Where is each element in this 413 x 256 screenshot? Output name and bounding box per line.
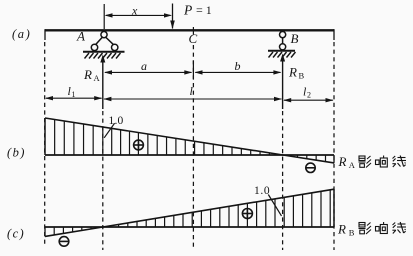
support A ground: [83, 51, 125, 53]
plus sign (c): [242, 209, 252, 219]
dashed line support B: [282, 111, 284, 250]
svg-text:B: B: [299, 71, 305, 81]
RB influence line hatching: [54, 190, 330, 235]
dashed line left end: [44, 42, 46, 246]
reaction arrow RB: [282, 60, 284, 109]
RA influence line hatching: [55, 120, 326, 162]
tick above support A: [103, 4, 105, 29]
dimension b: [195, 71, 280, 73]
svg-text:A: A: [94, 73, 101, 83]
RB influence baseline: [45, 226, 334, 228]
svg-text:= 1: = 1: [196, 3, 212, 17]
svg-text:(b): (b): [7, 146, 26, 160]
support B ground: [268, 50, 295, 52]
svg-text:B: B: [349, 228, 355, 238]
dimension l: [104, 98, 281, 100]
beam right end stub: [333, 29, 335, 40]
reaction arrow RA: [102, 61, 104, 109]
svg-text:1.0: 1.0: [109, 115, 124, 127]
svg-text:1: 1: [72, 90, 76, 99]
RA influence right edge: [333, 155, 335, 163]
beam left end stub: [44, 29, 46, 40]
svg-text:R: R: [83, 67, 92, 82]
leader (b): [104, 123, 114, 138]
RB influence right edge: [333, 189, 335, 227]
svg-text:A: A: [349, 160, 356, 170]
dimension a: [105, 71, 192, 73]
svg-text:(a): (a): [12, 27, 31, 41]
svg-text:x: x: [131, 4, 138, 18]
dashed line support A: [102, 111, 104, 250]
beam: [45, 29, 334, 31]
RA influence baseline: [45, 154, 334, 156]
support A (pin): [91, 31, 118, 50]
RA influence sloped line: [45, 118, 334, 163]
leader (c): [268, 195, 281, 216]
svg-text:R: R: [337, 222, 346, 237]
svg-text:2: 2: [307, 91, 311, 100]
dimension x: [106, 14, 171, 16]
svg-text:B: B: [291, 31, 299, 46]
RA influence left edge: [44, 118, 46, 155]
svg-text:R: R: [338, 154, 347, 169]
tick at C for a/b dims: [192, 61, 194, 80]
RB influence left edge: [44, 227, 46, 236]
minus sign (b): [306, 163, 315, 172]
support B (roller): [280, 31, 286, 49]
svg-text:R: R: [288, 65, 297, 80]
svg-text:A: A: [76, 29, 85, 44]
svg-text:(c): (c): [7, 227, 25, 241]
dashed line right end: [333, 42, 335, 250]
dimension l1: [46, 97, 102, 99]
load P arrow: [172, 4, 174, 29]
RB influence sloped line: [45, 189, 334, 236]
dashed line node C: [192, 45, 194, 250]
svg-text:a: a: [141, 59, 147, 73]
node C tick on beam: [192, 27, 194, 35]
dimension l2: [284, 99, 333, 101]
plus sign (b): [134, 140, 144, 150]
svg-text:b: b: [235, 59, 241, 73]
minus sign (c): [59, 237, 69, 247]
svg-text:1.0: 1.0: [254, 185, 270, 197]
svg-text:P: P: [183, 2, 192, 17]
